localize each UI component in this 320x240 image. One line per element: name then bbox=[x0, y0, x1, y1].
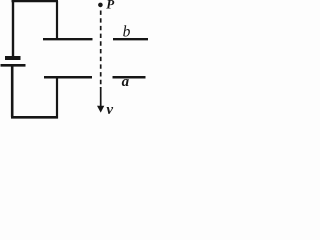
capacitor plate a left segment bbox=[44, 76, 92, 79]
capacitor plate a right segment bbox=[113, 76, 146, 79]
battery B top plate (short thick, negative) bbox=[5, 56, 21, 60]
wire bottom horizontal bbox=[11, 116, 58, 119]
wire left vertical upper bbox=[12, 0, 14, 57]
svg-text:v: v bbox=[106, 102, 113, 118]
trajectory solid segment before arrow bbox=[100, 87, 102, 107]
svg-text:P: P bbox=[106, 0, 115, 12]
capacitor plate b right segment bbox=[113, 38, 148, 40]
wire left vertical lower bbox=[11, 66, 14, 117]
circuit schematic: charged particle P moving with velocity v through parallel-plate capacitor (plates a, b) connected to a battery bbox=[0, 0, 148, 129]
velocity arrowhead v bbox=[97, 106, 104, 113]
wire right vertical upper (to plate b) bbox=[56, 1, 58, 39]
particle P (dot) bbox=[98, 3, 103, 8]
svg-text:b: b bbox=[123, 24, 131, 41]
wire top horizontal bbox=[12, 0, 59, 2]
wire right vertical lower (plate a to bottom wire) bbox=[56, 78, 58, 119]
battery B bottom plate (long, positive) bbox=[1, 64, 26, 67]
svg-text:a: a bbox=[122, 74, 130, 90]
capacitor plate b left segment bbox=[43, 38, 93, 40]
trajectory dashed line (node path of particle) bbox=[100, 11, 102, 89]
